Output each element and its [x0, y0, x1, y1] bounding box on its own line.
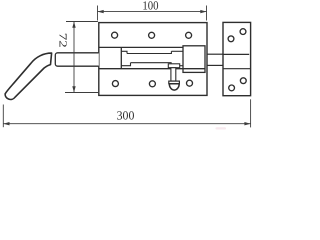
knob ball dome — [169, 84, 179, 90]
screw hole bottom-right — [187, 80, 193, 86]
keeper slot top edge — [223, 53, 249, 55]
bent handle — [5, 53, 52, 99]
knob ball neck band — [169, 81, 180, 84]
screw hole top-right — [186, 32, 192, 38]
keeper hole bottom-right — [240, 78, 246, 84]
dim 100 left extension line — [97, 6, 99, 21]
svg-text:72: 72 — [56, 33, 68, 48]
knob stem — [171, 68, 176, 81]
dim 72 top extension line — [66, 21, 98, 23]
slot bottom line — [131, 63, 172, 64]
keeper hole top-left — [228, 36, 234, 42]
right notch step top — [171, 50, 183, 52]
barrel bottom line left part — [99, 68, 172, 70]
screw hole top-middle — [149, 32, 155, 38]
right notch step bottom — [180, 65, 183, 67]
screw hole top-left — [112, 32, 118, 38]
keeper plate — [223, 22, 251, 95]
rod segment top line (plate to keeper) — [207, 53, 223, 55]
dim 300 left extension line — [2, 105, 4, 128]
left collar step bottom — [121, 63, 130, 66]
barrel top line — [99, 46, 183, 48]
dim 100 right arrow — [200, 10, 206, 13]
watermark smudge — [216, 127, 227, 129]
dim 72 bottom extension line — [65, 92, 98, 94]
rod segment bottom line — [207, 64, 223, 66]
svg-text:300: 300 — [117, 109, 135, 123]
right collar — [183, 46, 205, 73]
dim 72 line — [73, 22, 75, 93]
screw hole bottom-middle — [149, 81, 155, 87]
back plate — [99, 23, 207, 96]
dim 300 line — [3, 123, 250, 125]
keeper hole bottom-left — [229, 85, 235, 91]
dim 300 right extension line — [250, 99, 252, 127]
knob flange — [168, 64, 179, 68]
dim 100 right extension line — [206, 6, 208, 21]
left collar step top — [121, 51, 127, 53]
slot top line — [127, 51, 171, 53]
bolt rod sleeve — [55, 53, 99, 66]
dim 300 left arrow — [3, 122, 9, 125]
screw hole bottom-left — [112, 81, 118, 87]
dim 100 line — [98, 11, 207, 13]
keeper slot bottom edge — [223, 68, 251, 70]
barrel bottom line right part — [176, 68, 205, 70]
dim 72 up arrow — [72, 22, 75, 28]
dim 100 left arrow — [98, 10, 104, 13]
keeper hole top-right — [240, 29, 246, 35]
svg-text:100: 100 — [142, 0, 158, 12]
left collar right edge — [120, 47, 122, 68]
dim 300 right arrow — [244, 122, 250, 125]
dim 72 down arrow — [72, 86, 75, 92]
